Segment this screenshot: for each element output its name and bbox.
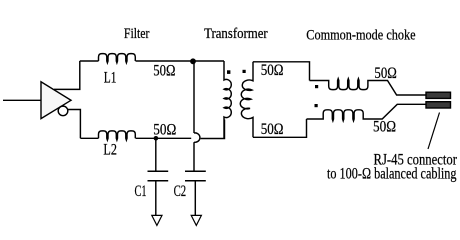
wire from top node down to C2 (upper part) [193, 61, 195, 133]
pointer line to RJ-45 label [428, 113, 440, 150]
transformer T1 primary winding [224, 61, 231, 138]
transformer primary polarity dot [227, 70, 230, 74]
wire from driver inverting output [68, 110, 81, 139]
capacitor C1 [155, 138, 157, 171]
transformer secondary polarity dot [243, 70, 246, 73]
wire bottom rail to hop [136, 137, 192, 139]
svg-text:to 100-Ω balanced cabling: to 100-Ω balanced cabling [327, 165, 457, 182]
ground (C2) [191, 215, 201, 225]
svg-text:L1: L1 [104, 69, 117, 86]
wire from driver non-inverting output to top rail [54, 61, 80, 89]
choke top winding polarity dot [315, 85, 318, 88]
svg-text:50Ω: 50Ω [153, 63, 175, 80]
node junction dot top rail [190, 58, 196, 64]
svg-text:Common-mode choke: Common-mode choke [306, 28, 415, 44]
RJ-45 connector pin bar 1 [426, 92, 451, 98]
ground (C1) [152, 215, 162, 225]
wire bottom rail after hop to transformer [201, 120, 225, 139]
wire top rail left segment [80, 60, 99, 62]
node junction dot bottom rail at C1 [154, 136, 159, 141]
svg-text:Transformer: Transformer [204, 26, 268, 42]
wire bottom rail left segment [80, 137, 98, 139]
svg-text:C1: C1 [135, 183, 147, 200]
wire hop over bottom rail [194, 133, 200, 142]
inductor L1 [99, 54, 136, 63]
choke bottom winding polarity dot [315, 104, 318, 107]
wire secondary top rail [253, 62, 310, 81]
svg-text:50Ω: 50Ω [373, 119, 396, 136]
inverting output bubble on driver [58, 106, 68, 116]
svg-text:C2: C2 [174, 183, 187, 200]
RJ-45 connector pin bar 2 [426, 102, 451, 108]
svg-text:Filter: Filter [124, 26, 150, 42]
wire from hop down to C2 [193, 142, 195, 171]
svg-text:50Ω: 50Ω [374, 65, 396, 82]
wire input line [3, 99, 41, 101]
wire secondary bottom rail [253, 119, 307, 137]
wire top rail to transformer [136, 60, 225, 62]
common-mode choke top winding [310, 79, 426, 95]
driver U1 (differential line driver triangle) [41, 82, 71, 119]
svg-text:L2: L2 [103, 142, 117, 159]
inductor L2 [99, 131, 136, 140]
transformer T1 secondary winding [240, 62, 253, 138]
common-mode choke bottom winding [307, 104, 426, 121]
capacitor C2 [185, 171, 206, 181]
svg-text:50Ω: 50Ω [261, 62, 284, 79]
svg-text:50Ω: 50Ω [153, 122, 176, 139]
svg-text:50Ω: 50Ω [261, 121, 284, 138]
